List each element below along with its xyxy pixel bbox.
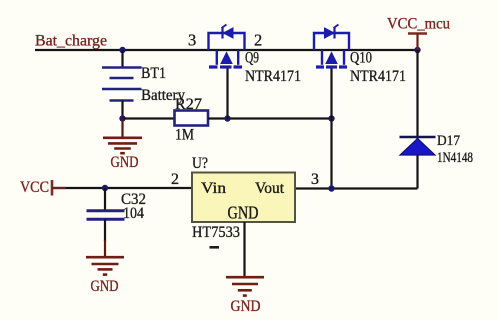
junction Vout gate node: [328, 185, 334, 191]
power port VCC bar: [51, 180, 54, 196]
wire battery negative lead: [121, 101, 123, 119]
svg-text:R27: R27: [175, 96, 202, 113]
wire Q9 gate: [226, 68, 228, 119]
mark dash under HT7533: [210, 246, 220, 249]
svg-text:Q9: Q9: [245, 50, 259, 67]
junction C32 tap: [102, 185, 108, 191]
wire battery gnd drop: [121, 119, 123, 138]
svg-text:GND: GND: [111, 154, 139, 171]
svg-text:VCC: VCC: [20, 179, 49, 196]
svg-text:NTR4171: NTR4171: [350, 68, 406, 85]
wire Vout net bottom: [295, 187, 418, 189]
power port VCC_mcu bar: [408, 32, 427, 35]
wire VCC_mcu down to Vout: [416, 50, 418, 189]
power port VCC lead: [52, 187, 66, 189]
ground GND regulator: [226, 277, 264, 295]
resistor R27: [175, 111, 209, 126]
svg-text:D17: D17: [437, 133, 460, 149]
svg-text:BT1: BT1: [141, 65, 166, 82]
svg-text:Q10: Q10: [350, 50, 372, 67]
wire battery to R27: [123, 117, 175, 119]
svg-text:GND: GND: [91, 278, 119, 295]
svg-text:2: 2: [171, 171, 179, 188]
ground GND C32: [86, 257, 124, 274]
wire VCC to regulator Vin: [52, 187, 192, 189]
svg-text:3: 3: [188, 31, 196, 50]
svg-text:104: 104: [123, 205, 144, 222]
wire C32 gnd drop: [104, 219, 106, 241]
svg-text:GND: GND: [228, 203, 259, 223]
power port VCC_mcu stub: [416, 34, 418, 51]
svg-text:U?: U?: [192, 155, 208, 172]
transistor Q9: [209, 25, 245, 68]
junction battery top tap: [119, 47, 125, 53]
wire regulator GND pin: [243, 222, 245, 277]
svg-text:3: 3: [311, 171, 319, 188]
svg-text:2: 2: [254, 31, 262, 50]
capacitor C32: [87, 211, 125, 220]
svg-text:1N4148: 1N4148: [437, 150, 473, 166]
wire C32 top stub: [104, 188, 106, 210]
wire Bat_charge top net: [35, 49, 418, 51]
svg-text:GND: GND: [231, 298, 261, 315]
junction Q9 gate node: [224, 115, 230, 121]
wire Q10 gate: [330, 68, 332, 189]
svg-text:Bat_charge: Bat_charge: [35, 33, 107, 50]
transistor Q10: [314, 25, 349, 68]
svg-text:HT7533: HT7533: [192, 224, 240, 241]
svg-text:Vin: Vin: [201, 180, 226, 197]
junction battery negative node: [119, 115, 125, 121]
regulator U? HT7533 box: [192, 173, 295, 223]
svg-text:1M: 1M: [175, 127, 194, 144]
junction VCC_mcu node: [414, 47, 420, 53]
wire battery top lead: [121, 50, 123, 68]
battery BT1: [102, 68, 142, 101]
wire R27 to gate nodes: [208, 117, 332, 119]
junction Q10 gate node: [328, 115, 334, 121]
svg-text:NTR4171: NTR4171: [245, 68, 301, 85]
diode D17: [400, 137, 436, 155]
svg-text:VCC_mcu: VCC_mcu: [387, 16, 450, 33]
svg-text:Vout: Vout: [255, 180, 285, 197]
ground GND battery: [103, 138, 142, 153]
